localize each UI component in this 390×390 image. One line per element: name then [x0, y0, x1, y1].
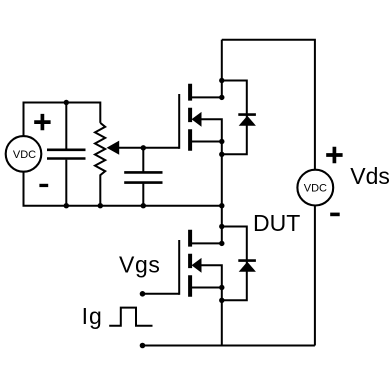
capacitor C1 (bulk cap) plates — [47, 150, 86, 159]
junction: Q1 source — [219, 139, 224, 144]
wire: Q1 arrow to source corner — [201, 119, 222, 141]
diode D1 cathode bar — [238, 113, 256, 116]
dc source V2 (Vds supply) circle — [297, 170, 333, 206]
diode D1 triangle — [239, 116, 256, 126]
svg-text:Vgs: Vgs — [119, 252, 160, 278]
diode D2 cathode bar — [238, 259, 256, 262]
junction: Q1 drain — [219, 95, 224, 100]
wire: bottom rail — [143, 345, 315, 347]
diode D2 triangle — [239, 262, 256, 272]
wire: Q2 source connection — [192, 287, 222, 289]
junction: D1 bottom / Q1 source rail — [219, 152, 224, 157]
wire: body diode D2 branch — [222, 227, 247, 301]
junction: wiper wire / C2 — [141, 145, 146, 150]
wire: Q1 drain connection — [192, 96, 222, 98]
junction: Q2 drain — [219, 241, 224, 246]
wire: top rail and right rail down to V2 — [222, 40, 315, 170]
transistor Q1 (high-side MOSFET) gate line — [178, 94, 180, 149]
plus polarity mark of V2 — [326, 147, 342, 163]
svg-text:Vds: Vds — [350, 163, 390, 189]
junction: D2 top / Q2 drain rail — [219, 224, 224, 229]
wiper arrow of potentiometer R1 — [107, 141, 120, 155]
svg-text:VDC: VDC — [13, 149, 36, 161]
terminal: Vgs gate drive node — [140, 291, 146, 297]
gate pulse waveform symbol — [109, 308, 152, 326]
wire: Q1 source connection — [192, 141, 222, 143]
minus polarity mark of V2 — [330, 213, 340, 217]
svg-text:VDC: VDC — [304, 183, 327, 195]
capacitor C2 (gate cap) plates — [124, 172, 162, 182]
transistor Q2 body arrow — [192, 258, 202, 273]
svg-text:DUT: DUT — [253, 210, 300, 236]
junction: R1 / bottom rail — [98, 203, 103, 208]
junction: C1 / bottom rail — [64, 203, 69, 208]
wire: Vgs terminal to Q2 gate — [143, 293, 180, 295]
wire: body diode D1 branch — [222, 81, 247, 155]
wire: Q2 arrow to source corner — [201, 265, 222, 287]
resistor R1 (potentiometer body, zigzag) — [95, 123, 105, 175]
transistor Q1 body arrow — [192, 112, 202, 127]
wire: R1 bottom lead — [99, 175, 101, 206]
transistor Q2 (DUT MOSFET) gate line — [178, 240, 180, 295]
terminal: source return node on bottom rail — [140, 343, 146, 349]
wire: mid node down to Q2 drain — [221, 206, 223, 244]
minus polarity mark of V1 — [39, 184, 48, 187]
dc source V1 (left VDC supply) circle — [6, 136, 42, 172]
transistor Q1 channel segments — [188, 84, 192, 151]
wire: Q2 source down to bottom rail — [221, 288, 223, 346]
junction: C1 / top rail — [64, 100, 69, 105]
wire: C1 top lead — [65, 103, 67, 149]
wire: wiper to gate node of Q1 — [118, 147, 179, 149]
wire: C1 bottom lead — [65, 160, 67, 206]
transistor Q2 channel segments — [188, 230, 192, 297]
svg-text:Ig: Ig — [82, 303, 103, 329]
wire: C2 top lead — [142, 148, 144, 172]
junction: D2 bottom / Q2 source rail — [219, 298, 224, 303]
wire: V1 - terminal down and along bottom-left rail to mid node — [24, 172, 222, 206]
wire: V1 + terminal up and along top-left rail to R1 top — [24, 103, 101, 137]
wire: top rail down to Q1 drain — [221, 40, 223, 98]
wire: C2 bottom lead — [142, 184, 144, 206]
junction: C2 / bottom rail — [141, 203, 146, 208]
plus polarity mark of V1 — [34, 114, 50, 130]
wire: V2 bottom to bottom-right corner — [314, 205, 316, 345]
node: mid point between Q1 and Q2 — [219, 203, 224, 208]
wire: Q1 source down to mid node — [221, 142, 223, 206]
wire: Q2 drain connection — [192, 242, 222, 244]
junction: Q2 source — [219, 285, 224, 290]
junction: D1 top / Q1 drain rail — [219, 78, 224, 83]
